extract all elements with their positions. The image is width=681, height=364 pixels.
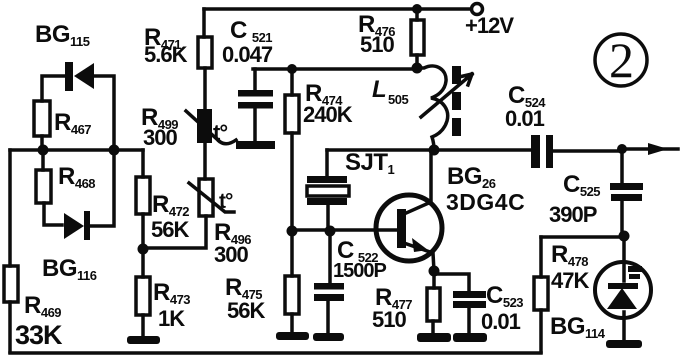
- svg-text:300: 300: [214, 242, 248, 267]
- svg-text:510: 510: [360, 32, 394, 57]
- resistor R467: [34, 101, 91, 150]
- thermistor R496: [144, 143, 251, 267]
- resistor R468: [36, 150, 95, 225]
- resistor R469: [4, 150, 63, 352]
- svg-text:510: 510: [372, 307, 406, 332]
- wire base line: [292, 228, 397, 232]
- diode BG116: [42, 150, 114, 283]
- svg-text:t°: t°: [219, 190, 233, 213]
- resistor R475: [225, 231, 309, 340]
- circled number 2: [595, 32, 647, 88]
- crystal SJT1: [307, 149, 395, 230]
- resistor R477: [372, 284, 451, 342]
- wire bottom feedback bus: [10, 351, 541, 355]
- resistor R476: [358, 9, 424, 67]
- capacitor C524: [505, 82, 620, 168]
- diode BG115: [35, 21, 114, 150]
- svg-text:33K: 33K: [15, 320, 63, 350]
- capacitor C523: [453, 282, 523, 342]
- svg-text:5.6K: 5.6K: [144, 42, 188, 67]
- svg-text:2: 2: [609, 32, 634, 88]
- wire emitter node: [434, 271, 469, 291]
- resistor R478: [534, 237, 589, 352]
- svg-text:240K: 240K: [303, 102, 353, 127]
- inductor L505: [372, 66, 472, 150]
- ground BG114: [606, 340, 642, 348]
- svg-text:47K: 47K: [551, 268, 589, 293]
- capacitor C522: [313, 231, 386, 341]
- svg-text:56K: 56K: [227, 298, 265, 323]
- capacitor C521: [222, 17, 275, 149]
- svg-text:390P: 390P: [549, 202, 597, 227]
- svg-text:3DG4C: 3DG4C: [446, 189, 525, 215]
- capacitor C525: [549, 149, 643, 236]
- svg-text:+12V: +12V: [465, 13, 514, 38]
- svg-text:505: 505: [388, 92, 408, 107]
- svg-text:0.01: 0.01: [481, 309, 521, 334]
- wire feedback node: [541, 235, 622, 239]
- svg-text:0.047: 0.047: [222, 42, 273, 67]
- resistor R472: [136, 150, 189, 249]
- zener diode BG114: [550, 236, 651, 341]
- wire diode node line: [10, 148, 143, 152]
- resistor R473: [127, 249, 190, 344]
- terminal +12V: [465, 4, 514, 39]
- wire bias line: [253, 67, 417, 71]
- node junction dots: [38, 4, 630, 277]
- svg-text:L: L: [372, 76, 386, 103]
- svg-text:56K: 56K: [151, 217, 189, 242]
- svg-text:0.01: 0.01: [505, 106, 545, 131]
- wire top +12V rail: [204, 7, 470, 11]
- svg-text:1500P: 1500P: [333, 260, 386, 282]
- resistor R471: [144, 9, 212, 109]
- wire collector node line: [327, 148, 531, 152]
- transistor BG26: [376, 150, 525, 271]
- wire output arrow: [622, 143, 678, 155]
- thermistor R499: [141, 104, 236, 150]
- resistor R474: [285, 69, 353, 230]
- svg-text:SJT1: SJT1: [345, 149, 395, 177]
- svg-text:300: 300: [143, 125, 177, 150]
- svg-text:1K: 1K: [158, 306, 185, 331]
